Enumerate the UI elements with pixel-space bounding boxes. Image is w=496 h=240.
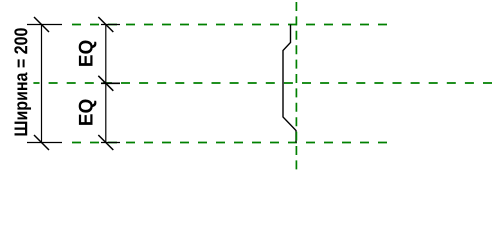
reference plane VERTICAL (295, 2, 297, 169)
dimension 2 witness top (101, 24, 120, 26)
dimension 2 EQ label lower (79, 99, 97, 124)
dimension 2 tick middle (98, 76, 113, 91)
profile polyline (283, 25, 296, 143)
dimension 1 tick top (34, 17, 49, 32)
reference plane BOTTOM horizontal (72, 142, 387, 144)
dimension 1 line (41, 25, 43, 143)
dimension 2 witness bottom (101, 142, 120, 144)
dimension 2 line (105, 25, 107, 143)
dimension 1 witness bottom (27, 142, 62, 144)
dimension 2 tick bottom (98, 135, 113, 150)
dimension 1 text (14, 28, 31, 135)
dimension 2 tick top (98, 17, 113, 32)
dimension 2 EQ label upper (79, 40, 97, 65)
reference plane TOP horizontal (72, 24, 387, 26)
text background mask (9, 27, 33, 137)
reference plane MIDDLE horizontal (31, 82, 493, 84)
dimension 2 witness middle (101, 82, 120, 84)
dimension 1 witness top (27, 24, 62, 26)
dimension 1 tick bottom (34, 135, 49, 150)
